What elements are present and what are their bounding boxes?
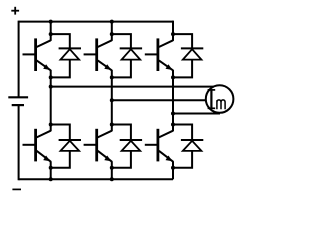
diode D6 (freewheel, lower leg 3) [181, 140, 203, 151]
diode D5 (freewheel, lower leg 2) [120, 140, 142, 151]
node + bus / leg 1 junction [49, 20, 53, 24]
wire D6 anode branch [173, 151, 192, 168]
wire top bus (+ rail) [19, 21, 173, 23]
node leg 2: Q5 emitter / D5 anode junction [110, 166, 114, 170]
node leg 3: Q6 emitter / D6 anode junction [171, 166, 175, 170]
node phase 2 output junction [110, 98, 114, 102]
node - bus / leg 1 junction [49, 177, 53, 181]
node leg 3: Q3 emitter / D3 anode junction [171, 75, 175, 79]
wire bottom bus (- rail) [19, 178, 173, 180]
label + (positive terminal) [11, 7, 19, 15]
wire D1 cathode branch [51, 34, 70, 48]
wire left rail (battery + to top bus) [18, 21, 20, 98]
diode D4 (freewheel, lower leg 1) [59, 140, 81, 151]
wire D3 cathode branch [173, 34, 192, 48]
transistor Q6 (lower IGBT leg 3) [145, 129, 173, 162]
node leg 3: Q6 collector / D6 tap junction [171, 123, 175, 127]
wire phase 1 line to motor [51, 86, 220, 88]
transistor Q2 (upper IGBT leg 2) [84, 38, 112, 71]
node leg 2: Q2 collector / D2 tap junction [110, 32, 114, 36]
diode D3 (freewheel, upper leg 3) [181, 48, 203, 59]
wire phase 3 line to motor [173, 113, 220, 115]
wire D4 anode branch [51, 151, 70, 168]
wire D6 cathode branch [173, 125, 192, 141]
wire D5 cathode branch [112, 125, 131, 141]
wire D1 anode branch [51, 60, 70, 78]
wire D5 anode branch [112, 151, 131, 168]
node leg 1: Q4 collector / D4 tap junction [49, 123, 53, 127]
node leg 2: Q5 collector / D5 tap junction [110, 123, 114, 127]
wire leg 1 midpoint vertical [50, 70, 52, 131]
node phase 1 output junction [49, 85, 53, 89]
node leg 1: Q1 emitter / D1 anode junction [49, 75, 53, 79]
wire D3 anode branch [173, 60, 192, 78]
node - bus / leg 2 junction [110, 177, 114, 181]
node leg 3: Q3 collector / D3 tap junction [171, 32, 175, 36]
transistor Q1 (upper IGBT leg 1) [23, 38, 51, 71]
wire leg 3 midpoint vertical [172, 70, 174, 131]
motor Im (induction motor) [206, 85, 234, 113]
wire D2 anode branch [112, 60, 131, 78]
diode D2 (freewheel, upper leg 2) [120, 48, 142, 59]
wire leg 2 midpoint vertical [111, 70, 113, 131]
node + bus / leg 2 junction [110, 20, 114, 24]
wire phase 2 line to motor [112, 99, 220, 101]
wire leg 3 bottom: Q6 emitter to - bus [172, 161, 174, 179]
wire leg 3 top: + bus to Q3 collector [172, 21, 174, 41]
node leg 2: Q2 emitter / D2 anode junction [110, 75, 114, 79]
node phase 3 output junction [171, 112, 175, 116]
wire left rail (battery - to bottom bus) [18, 105, 20, 180]
transistor Q5 (lower IGBT leg 2) [84, 129, 112, 162]
wire leg 2 bottom: Q5 emitter to - bus [111, 161, 113, 179]
label - (negative terminal) [12, 188, 21, 190]
wire leg 1 bottom: Q4 emitter to - bus [50, 161, 52, 179]
diode D1 (freewheel, upper leg 1) [59, 48, 81, 59]
node leg 1: Q4 emitter / D4 anode junction [49, 166, 53, 170]
transistor Q3 (upper IGBT leg 3) [145, 38, 173, 71]
wire D4 cathode branch [51, 125, 70, 141]
wire leg 2 top: + bus to Q2 collector [111, 21, 113, 41]
wire leg 1 top: + bus to Q1 collector [50, 21, 52, 41]
node leg 1: Q1 collector / D1 tap junction [49, 32, 53, 36]
wire D2 cathode branch [112, 34, 131, 48]
battery E (DC source) [8, 97, 28, 105]
transistor Q4 (lower IGBT leg 1) [23, 129, 51, 162]
